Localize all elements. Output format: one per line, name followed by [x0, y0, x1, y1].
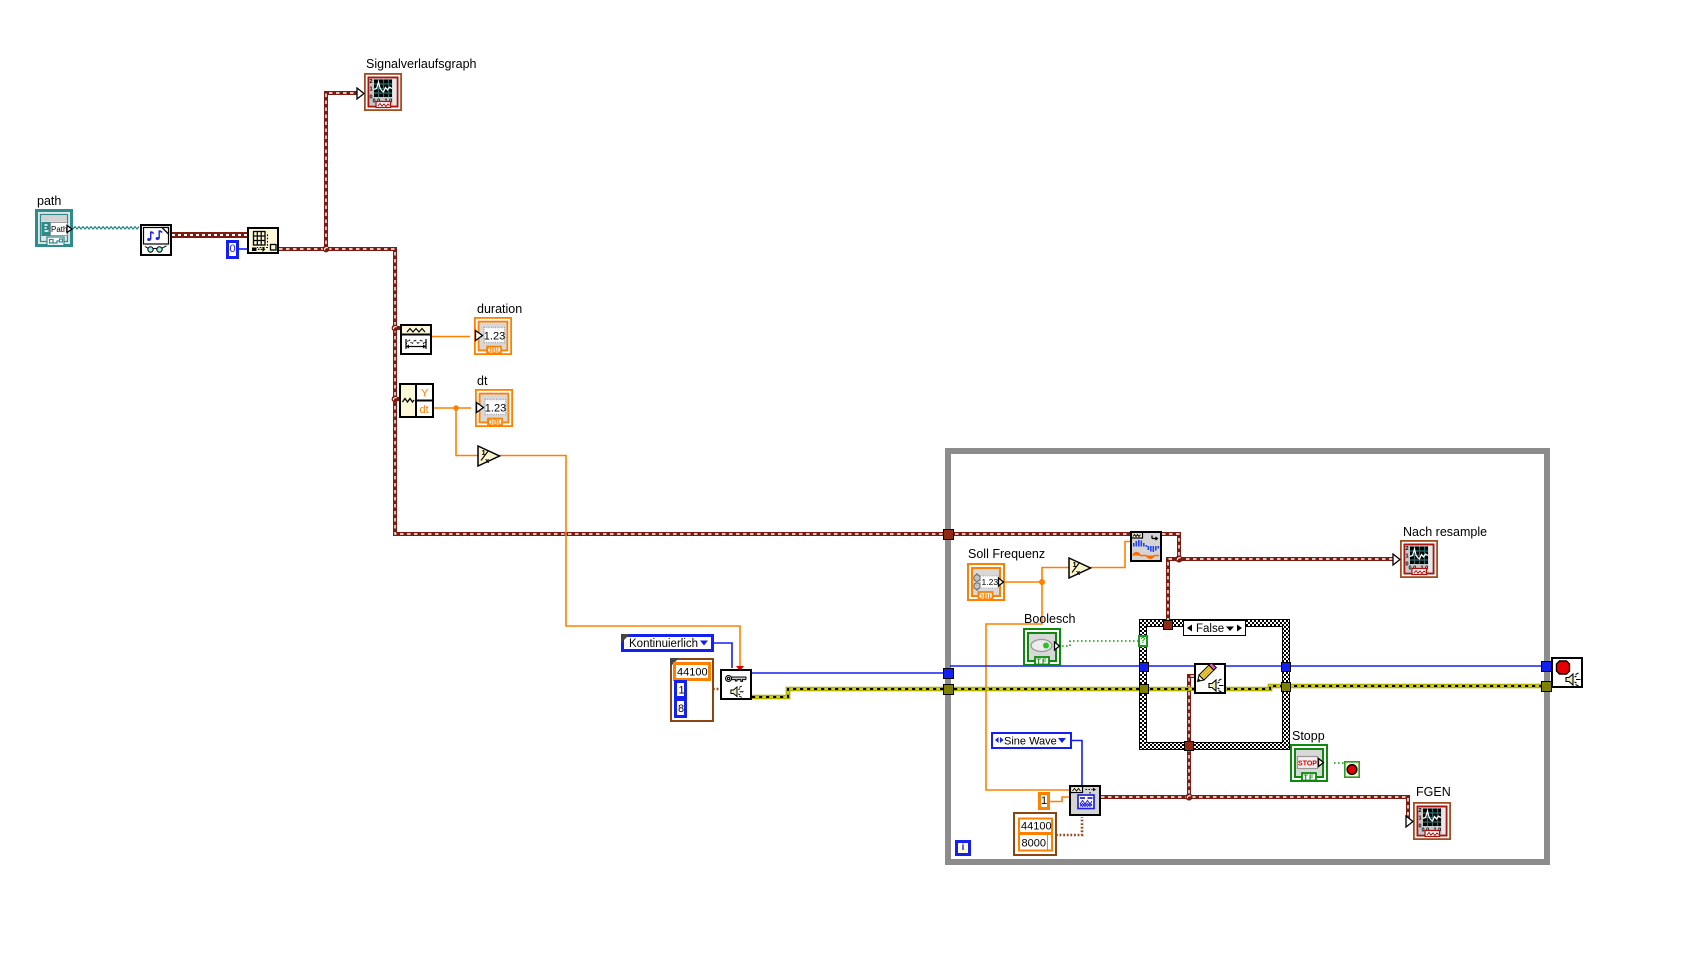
wire error configure to clear: [752, 686, 1552, 697]
indicator Nach resample: [1400, 540, 1438, 578]
svg-text:8000: 8000: [1022, 837, 1046, 849]
constant cluster 44100 1 8: [670, 658, 714, 722]
svg-text:Y: Y: [421, 388, 429, 400]
wire dbl soll frequenz to simulate: [986, 582, 1069, 790]
label dt: [477, 374, 487, 388]
node Get Waveform Components Y dt: [399, 383, 434, 418]
label Signalverlaufsgraph: [366, 57, 477, 71]
junction waveform under case: [1185, 793, 1192, 800]
label path: [37, 194, 61, 208]
wire bool Stopp to loop condition: [1334, 762, 1344, 764]
label duration: [477, 302, 522, 316]
wire dbl to reciprocal2: [1042, 568, 1069, 583]
svg-text:STOP: STOP: [1298, 761, 1317, 768]
label FGEN: [1416, 785, 1451, 799]
svg-text:False: False: [1196, 623, 1224, 635]
svg-text:44100: 44100: [677, 666, 708, 678]
node Simulate Signal: [1069, 785, 1101, 816]
svg-text:TF: TF: [1303, 773, 1314, 782]
wire dbl reciprocal to sound configure: [499, 456, 740, 667]
tunnel error loop left: [943, 684, 954, 695]
svg-text:Kontinuierlich: Kontinuierlich: [629, 638, 698, 650]
coercion dot on configure node: [736, 666, 744, 671]
junction waveform duration tap: [392, 325, 399, 332]
indicator FGEN: [1413, 802, 1451, 840]
wire cluster 44100-8000 to simulate: [1056, 817, 1082, 835]
tunnel waveform loop left: [943, 529, 954, 540]
tunnel waveform case bottom: [1184, 741, 1194, 751]
wire bool Boolesch to case selector: [1062, 641, 1139, 646]
wire i32 const 0 to index array: [239, 248, 247, 250]
tunnel waveform case top: [1163, 620, 1173, 630]
node reciprocal2 1/x: [1068, 556, 1093, 580]
wire enum Sine Wave to simulate: [1072, 741, 1082, 787]
node Index Array: [247, 227, 279, 254]
wire dbl Soll Frequenz out: [1005, 581, 1042, 583]
svg-text:8: 8: [678, 703, 684, 715]
wire waveform junction to case top tunnel: [1168, 559, 1179, 624]
label Stopp: [1292, 729, 1325, 743]
wire stub to duration icon: [393, 326, 400, 330]
arrow into FGEN: [1405, 815, 1414, 828]
indicator duration: [474, 317, 512, 355]
svg-text:1.23: 1.23: [982, 577, 999, 587]
case selector terminal ?: [1138, 635, 1148, 647]
svg-text:TF: TF: [1036, 657, 1047, 666]
junction waveform at index output: [323, 246, 330, 253]
node reciprocal 1/x: [477, 444, 502, 468]
wire path (teal) path control to sound read: [73, 227, 139, 229]
arrow into Nach resample: [1392, 553, 1401, 566]
wire waveform simulate to FGEN: [1101, 797, 1408, 821]
node Sound Output Clear: [1551, 657, 1583, 688]
wire dbl duration: [432, 336, 470, 338]
control Boolesch: [1023, 628, 1061, 666]
svg-text:dt: dt: [420, 404, 429, 416]
node Sound File Read: [140, 224, 172, 256]
wire waveform inside loop to resample: [948, 532, 1130, 536]
wire waveform-array sound read to index array: [172, 232, 247, 238]
wire waveform inside case to bottom tunnel: [1189, 676, 1194, 797]
tunnel error case left: [1139, 684, 1149, 694]
tunnel taskid loop right: [1541, 661, 1552, 672]
wire taskid inside loop: [950, 665, 1552, 667]
loop conditional terminal: [1344, 761, 1360, 778]
wire enum Kontinuierlich to configure: [714, 643, 732, 668]
control Stopp button: [1290, 744, 1328, 782]
while loop: [945, 448, 1550, 865]
wire dbl dt to reciprocal: [456, 408, 478, 456]
indicator Signalverlaufsgraph (waveform graph): [364, 73, 402, 111]
wire stub to Y-dt icon: [393, 397, 399, 401]
node Sound Output Configure: [720, 669, 752, 700]
svg-text:Path: Path: [51, 225, 67, 234]
node Sound Output Write: [1194, 663, 1226, 694]
wire dbl const 1 to simulate: [1050, 797, 1069, 802]
tunnel taskid case right: [1281, 662, 1291, 672]
control Soll Frequenz: [967, 563, 1005, 601]
constant array 44100 8000: [1013, 812, 1057, 856]
case structure False: [1139, 619, 1290, 750]
junction dbl soll frequenz: [1039, 579, 1045, 585]
tunnel taskid loop left: [943, 668, 954, 679]
label Nach resample: [1403, 525, 1487, 539]
svg-text:Sine Wave: Sine Wave: [1004, 735, 1057, 747]
wire taskid configure to loop: [752, 672, 946, 674]
node iteration terminal i: [955, 840, 971, 856]
indicator dt: [475, 389, 513, 427]
svg-text:44100: 44100: [1021, 821, 1052, 833]
svg-text:DBL: DBL: [978, 592, 994, 601]
shared symbols: [0, 0, 1, 1]
case label False: [1183, 620, 1246, 636]
node Get Waveform Duration: [400, 324, 432, 355]
constant 1: [1038, 792, 1050, 810]
wire dbl dt: [434, 407, 471, 409]
constant enum Kontinuierlich: [621, 634, 714, 652]
constant enum Sine Wave: [991, 732, 1072, 749]
label Boolesch: [1024, 612, 1075, 626]
node Resample Waveforms: [1130, 531, 1162, 562]
wire dbl reciprocal2 to resample: [1090, 542, 1130, 568]
tunnel taskid case left: [1139, 662, 1149, 672]
junction waveform dt tap: [392, 396, 399, 403]
tunnel error case right: [1281, 682, 1291, 692]
junction dbl dt: [453, 405, 459, 411]
wire waveform to Signalverlaufsgraph: [326, 93, 357, 251]
tunnel error loop right: [1541, 681, 1552, 692]
wire cluster constant to configure: [713, 688, 720, 691]
junction waveform after resample: [1175, 555, 1182, 562]
label Soll Frequenz: [968, 547, 1045, 561]
wire waveform main run to loop: [279, 249, 946, 534]
control path (file path control): [35, 209, 73, 247]
wire waveform to Nach resample: [1179, 557, 1393, 561]
arrow into Signalverlaufsgraph: [356, 87, 365, 100]
constant 0: [226, 240, 239, 259]
svg-text:1: 1: [679, 684, 685, 696]
wire waveform resample out: [1162, 534, 1179, 559]
